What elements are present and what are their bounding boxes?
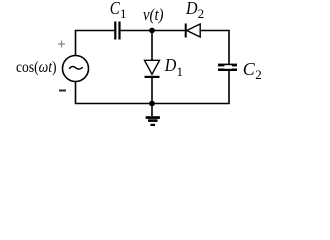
wire from D2 to top-right corner down to C2 top plate	[200, 31, 229, 64]
label v(t)	[143, 5, 164, 24]
svg-text:2: 2	[198, 6, 205, 21]
wire from C2 bottom plate down, along bottom, up to source bottom	[76, 71, 230, 104]
ground symbol	[146, 104, 160, 127]
capacitor C1	[114, 22, 120, 40]
wire from node v(t) down to D1 triangle top	[151, 31, 153, 61]
label C2	[243, 59, 262, 82]
wire from source top up and right to C1 left plate	[76, 31, 115, 57]
diode D2 (cathode bar left, triangle pointing left)	[185, 24, 201, 38]
voltage source circle	[63, 56, 89, 82]
svg-text:C: C	[110, 0, 121, 18]
label C1	[110, 0, 127, 21]
svg-text:D: D	[185, 0, 197, 18]
label D1	[164, 55, 183, 79]
svg-text:C: C	[243, 59, 256, 79]
wire from C1 right plate to diode D2 bar	[121, 30, 185, 32]
capacitor C2	[218, 64, 237, 71]
junction dot at ground node	[149, 101, 155, 107]
plus sign	[58, 41, 65, 48]
svg-text:2: 2	[255, 67, 262, 82]
label cos(wt)	[16, 59, 57, 76]
svg-text:v(t): v(t)	[143, 5, 164, 24]
svg-text:cos(ωt): cos(ωt)	[16, 59, 57, 76]
diode D1 (triangle pointing down, bar below)	[145, 60, 160, 78]
wire from D1 bar down to ground junction	[151, 78, 153, 104]
label D2	[185, 0, 204, 21]
node v(t) junction dot	[149, 28, 155, 34]
svg-text:1: 1	[120, 6, 127, 21]
svg-text:1: 1	[177, 64, 184, 79]
svg-text:D: D	[164, 55, 176, 75]
minus sign	[59, 90, 66, 92]
